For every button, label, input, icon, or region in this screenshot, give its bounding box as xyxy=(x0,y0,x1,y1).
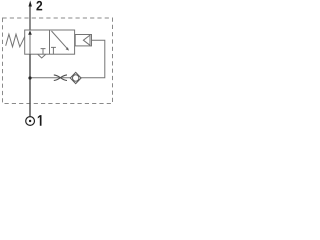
label 2 xyxy=(36,1,42,10)
flow path, left position (1 to 2 open) xyxy=(29,34,31,55)
ball inside diamond xyxy=(73,75,79,81)
port 1 line xyxy=(29,54,31,116)
flow path arrowhead (up) xyxy=(28,30,32,35)
junction node xyxy=(28,76,31,79)
pilot actuator box xyxy=(75,35,91,46)
flow path diagonal, right position (2 to vent) xyxy=(52,31,68,49)
diagonal arrowhead xyxy=(66,47,69,50)
port 2 line xyxy=(29,5,31,30)
pilot line xyxy=(30,40,105,78)
orifice (restrictor) on pilot line xyxy=(54,75,67,81)
label 1 xyxy=(38,115,42,126)
pilot triangle xyxy=(83,35,90,45)
blocked port, right position xyxy=(51,47,56,54)
spring (left, adjustment) xyxy=(6,34,25,47)
blocked vent port, left position xyxy=(41,49,46,55)
component envelope (dashed enclosure) xyxy=(3,18,113,104)
valve seat (below body) xyxy=(38,54,46,58)
port 2 arrowhead xyxy=(29,1,32,7)
port 1 symbol (circle with dot) xyxy=(26,117,35,126)
position divider xyxy=(49,30,51,54)
pilot screen diamond xyxy=(70,72,81,83)
valve body (two-position envelope) xyxy=(25,30,75,54)
